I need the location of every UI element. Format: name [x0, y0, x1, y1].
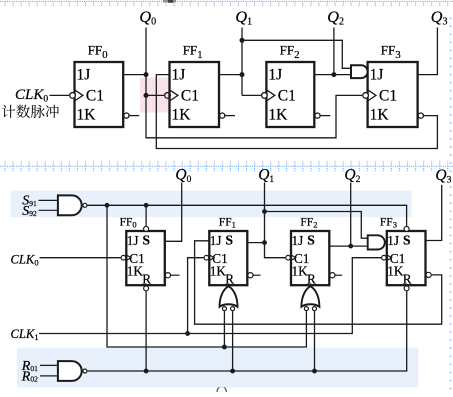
svg-text:1J: 1J [127, 233, 139, 248]
svg-text:1K: 1K [210, 263, 227, 278]
wire S92 input [39, 209, 58, 211]
FF0 reset input bubble [144, 286, 149, 291]
svg-text:S: S [307, 232, 315, 247]
wire CLK0 to FF0.C1 [40, 257, 121, 259]
FF0 set input bubble [144, 226, 149, 231]
wire Q1 to AND gate G4 [265, 212, 368, 239]
svg-text:S: S [403, 232, 411, 247]
svg-text:1K: 1K [268, 106, 288, 123]
wire Q1 riser [241, 28, 243, 96]
wire CLK1 to FF3.C1 [39, 258, 381, 334]
wire S9 drop to FF0.S [145, 205, 147, 226]
svg-text:1J: 1J [77, 66, 91, 83]
nand gate G2 (S91·S92) [58, 195, 82, 215]
wire Q2 riser [333, 28, 335, 75]
svg-text:1J: 1J [370, 66, 384, 83]
FF2 /Q bubble and stub [330, 273, 335, 278]
wire G4 output to FF3.1J [385, 241, 387, 243]
highlight (pink) on FF1 clock region [140, 78, 169, 113]
flip-flop FF2 (74LS290 section) [286, 216, 329, 286]
svg-text:1J: 1J [387, 233, 399, 248]
junction S9 branch [105, 203, 110, 208]
flip-flop FF1 (74LS290 section) [204, 216, 247, 286]
FF0 /Q output bubble [124, 113, 129, 118]
FF3 /Q bubble [426, 272, 431, 277]
wire OR2 right input [314, 311, 316, 371]
svg-text:1J: 1J [268, 66, 282, 83]
wire FF2.Q to AND gate G1 [314, 74, 351, 76]
svg-text:CLK0: CLK0 [15, 87, 48, 105]
flip-flop FF0 (top ripple counter) [70, 42, 124, 127]
and gate G1 (J3 = Q1·Q2) [351, 65, 368, 78]
or gate for FF2.R [301, 286, 319, 307]
wire CLK0 to FF0.C1 [50, 94, 70, 96]
junction OR1 left [222, 345, 227, 350]
svg-text:1K: 1K [387, 263, 404, 278]
wire Q0 to FF1.C1 [146, 94, 164, 96]
FF1 /Q bubble and stub [248, 273, 253, 278]
flip-flop FF3 (top ripple counter) [363, 42, 418, 127]
wire /Q3 feedback to FF1.1J [156, 75, 437, 149]
svg-text:S: S [143, 232, 151, 247]
FF1 /Q output bubble [220, 113, 225, 118]
junction OR2 right [312, 369, 317, 374]
wire CLK1 to FF1.C1 [188, 258, 204, 334]
wire Q1 riser and drop to FF2.C1 [265, 183, 286, 258]
wire Q0 down to FF3.C1 [146, 95, 362, 137]
FF3 reset input bubble [404, 286, 409, 291]
wire S9 branch to OR gates [107, 205, 306, 347]
wire FF3.Q to Q3 [426, 185, 442, 241]
wire FF1.Q to node [247, 242, 264, 244]
junction Q1 branch [240, 38, 245, 43]
svg-text:1J: 1J [172, 66, 186, 83]
or gate for FF1.R [220, 286, 238, 307]
label 计数脉冲 (counting pulses) [2, 105, 59, 118]
FF2 /Q output bubble [315, 113, 320, 118]
wire S9 line to FF0.S and FF3.S [88, 205, 407, 226]
junction OR1 right [230, 369, 235, 374]
wire Q0 riser [145, 28, 147, 96]
wire R0 line [88, 291, 407, 371]
wire FF0.R drop [145, 291, 147, 371]
junction Q0/C row [144, 93, 149, 98]
svg-text:1K: 1K [370, 106, 390, 123]
highlight band (R0 reset row) [17, 348, 418, 388]
svg-text:1K: 1K [127, 263, 144, 278]
junction Q1/FF1.Q [262, 240, 267, 245]
svg-text:R: R [403, 271, 412, 286]
svg-text:1K: 1K [292, 263, 309, 278]
svg-text:1J: 1J [210, 233, 222, 248]
svg-text:C1: C1 [86, 88, 104, 105]
svg-text:S: S [226, 232, 234, 247]
wire OR1 right input [232, 311, 234, 371]
junction Q1 branch [262, 209, 267, 214]
wire FF1.Q to node Q1 [219, 74, 242, 76]
flip-flop FF0 (74LS290 section) [120, 216, 165, 286]
svg-text:C1: C1 [379, 88, 397, 105]
wire FF0.Q to node Q0 [123, 74, 146, 76]
junction Q1/J row [240, 72, 245, 77]
wire /Q3 feedback to FF1.1J [195, 241, 442, 324]
junction Q0/J row [144, 72, 149, 77]
wire Q1 to FF2.C1 [242, 94, 261, 96]
wire R02 input [40, 375, 58, 377]
svg-text:1K: 1K [172, 106, 192, 123]
svg-text:C1: C1 [278, 88, 296, 105]
flip-flop FF2 (top ripple counter) [262, 42, 315, 127]
svg-text:1K: 1K [77, 106, 97, 123]
wire OR1 left input [223, 311, 225, 347]
nand gate G3 (R01·R02) [58, 361, 82, 381]
highlight band (S9 set row) [11, 191, 412, 218]
FF3 set input bubble [404, 226, 409, 231]
wire Q1 to AND gate G1 [242, 40, 351, 68]
flip-flop FF3 (74LS290 section) [380, 216, 426, 286]
wire Q2 riser [350, 183, 352, 247]
junction FF0.S [144, 203, 149, 208]
wire S91 input [39, 199, 58, 201]
FF3 /Q output bubble [418, 113, 423, 118]
wire FF0.Q to Q0 [165, 183, 182, 242]
svg-text:R: R [142, 271, 151, 286]
svg-text:R: R [307, 271, 316, 286]
junction Q2 [331, 72, 336, 77]
wire FF3.Q to node Q3 [418, 28, 438, 75]
wire R01 input [40, 364, 58, 366]
junction FF0.R [144, 369, 149, 374]
and gate G4 (J3 = Q1·Q2) [368, 235, 385, 249]
FF0 /Q bubble and stub [165, 273, 170, 278]
flip-flop FF1 (top ripple counter) [165, 42, 219, 127]
junction CLK1/FF1 [185, 331, 190, 336]
junction Q2 [348, 244, 353, 249]
svg-text:C1: C1 [181, 88, 199, 105]
wire FF2.Q to AND gate G4 [329, 245, 367, 247]
svg-text:1J: 1J [292, 233, 304, 248]
svg-text:R: R [225, 271, 234, 286]
